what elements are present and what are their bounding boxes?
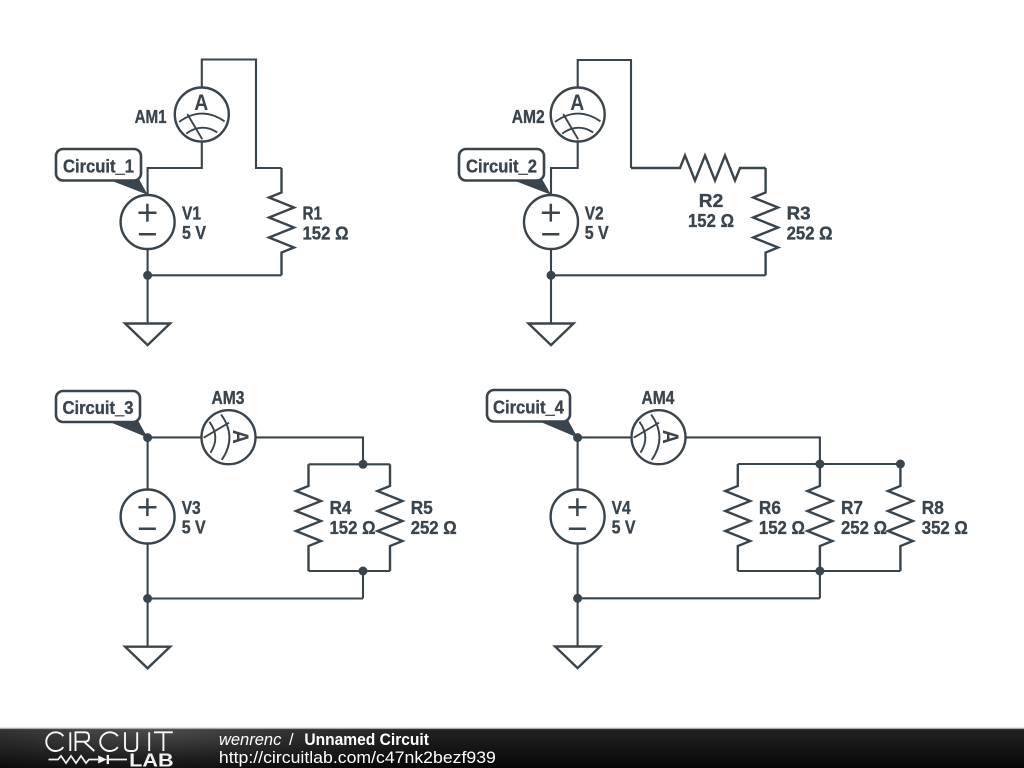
label V4 value <box>612 497 637 538</box>
node C3 parallel top junction (junction dot) <box>359 460 368 469</box>
node C4 source node (junction dot) <box>573 433 582 442</box>
label V3 value <box>182 497 207 538</box>
svg-text:152 Ω: 152 Ω <box>303 223 349 244</box>
resistor R8 <box>888 464 913 571</box>
wire C2 V2 top to AM2 bottom <box>551 141 578 195</box>
svg-text:R1: R1 <box>303 203 323 224</box>
wire C4 AM4 right to parallel top <box>686 437 820 464</box>
footer bar <box>0 728 1024 768</box>
label R5 value <box>411 497 457 538</box>
ammeter AM1 <box>175 88 229 142</box>
wire C3 node to V3 top <box>147 438 149 490</box>
node C3 ground junction (junction dot) <box>143 594 152 603</box>
ground GND2 <box>529 275 574 345</box>
svg-text:AM4: AM4 <box>642 387 676 408</box>
wire C4 bottom rail <box>738 570 901 572</box>
wire C4 V4 bottom to ground node <box>577 544 579 599</box>
wire C3 AM3 right to parallel top <box>256 437 364 464</box>
wire C3 bottom rail <box>309 570 391 572</box>
wire C1 ammeter top to R1 top <box>202 60 282 169</box>
CircuitLab logo: CIRCUIT <box>46 732 173 751</box>
svg-text:http://circuitlab.com/c47nk2be: http://circuitlab.com/c47nk2bezf939 <box>219 748 496 767</box>
wire C4 node to V4 top <box>577 438 579 490</box>
label R2 value <box>688 190 734 231</box>
svg-text:V1: V1 <box>182 203 201 224</box>
label R4 value <box>330 497 376 538</box>
ammeter AM2 <box>551 88 605 142</box>
svg-text:252 Ω: 252 Ω <box>411 517 457 538</box>
svg-text:V3: V3 <box>182 497 201 518</box>
footer title: author / circuit name <box>219 731 430 749</box>
wire C2 bottom return <box>551 274 766 276</box>
label V1 value <box>182 203 207 244</box>
node name flag Circuit_1 <box>56 149 148 195</box>
svg-text:R6: R6 <box>759 497 781 518</box>
wire C4 rail to return <box>819 571 821 598</box>
node name flag Circuit_4 <box>487 390 578 438</box>
wire C3 top rail <box>309 463 391 465</box>
svg-text:Circuit_1: Circuit_1 <box>63 156 134 177</box>
wire C4 bottom return <box>578 597 820 599</box>
voltage source V2 (5 V) <box>524 195 578 249</box>
resistor R5 <box>378 464 403 571</box>
node C3 source node (junction dot) <box>143 433 152 442</box>
wire C3 bottom return <box>148 597 363 599</box>
node name flag Circuit_2 <box>459 149 551 195</box>
node C4 parallel bottom junction (junction dot) <box>815 567 824 576</box>
svg-text:R5: R5 <box>411 497 433 518</box>
wire C4 node to AM4 left <box>578 436 632 438</box>
resistor R1 <box>269 168 294 275</box>
svg-text:5 V: 5 V <box>182 222 207 243</box>
svg-text:5 V: 5 V <box>182 517 207 538</box>
label AM4 <box>642 387 676 408</box>
ground GND4 <box>555 598 600 668</box>
svg-text:R2: R2 <box>699 190 724 211</box>
label V2 value <box>585 203 610 244</box>
label R8 value <box>922 497 968 538</box>
label R7 value <box>841 497 887 538</box>
CircuitLab logo: resistor-diode squiggle <box>49 755 128 764</box>
svg-text:R7: R7 <box>841 497 863 518</box>
resistor R3 <box>753 168 778 275</box>
svg-text:R4: R4 <box>330 497 353 518</box>
svg-text:Circuit_4: Circuit_4 <box>493 397 565 418</box>
wire C3 V3 bottom to ground node <box>147 544 149 599</box>
ground GND1 <box>125 275 170 345</box>
svg-text:V4: V4 <box>612 497 632 518</box>
ammeter AM4 <box>632 410 686 464</box>
label AM1 <box>135 106 167 127</box>
wire C2 ammeter top to R2 left <box>578 60 631 168</box>
svg-text:Circuit_3: Circuit_3 <box>63 397 134 418</box>
wire C2 V2 bottom to ground node <box>550 249 552 275</box>
svg-text:5 V: 5 V <box>585 222 610 243</box>
svg-text:352 Ω: 352 Ω <box>922 517 968 538</box>
node C3 parallel bottom junction (junction dot) <box>359 567 368 576</box>
svg-text:R8: R8 <box>922 497 944 518</box>
svg-text:152 Ω: 152 Ω <box>330 517 376 538</box>
node C2 ground junction (junction dot) <box>547 271 556 280</box>
node name flag Circuit_3 <box>56 391 148 438</box>
ground GND3 <box>125 599 170 669</box>
label R3 value <box>787 203 833 244</box>
footer url <box>219 748 496 767</box>
wire C1 V1 bottom to ground node <box>147 249 149 275</box>
wire C1 bottom return <box>148 274 282 276</box>
svg-text:AM3: AM3 <box>212 387 245 408</box>
voltage source V4 (5 V) <box>551 490 605 544</box>
wire C3 rail to return <box>362 571 364 599</box>
label R1 value <box>303 203 349 244</box>
svg-text:AM1: AM1 <box>135 106 167 127</box>
node C1 ground junction (junction dot) <box>143 271 152 280</box>
wire C1 V1 top to AM1 bottom <box>148 141 202 195</box>
svg-text:152 Ω: 152 Ω <box>759 517 805 538</box>
resistor R4 <box>296 464 321 571</box>
node C4 ground junction (junction dot) <box>573 594 582 603</box>
svg-text:AM2: AM2 <box>512 106 545 127</box>
svg-text:5 V: 5 V <box>612 517 637 538</box>
svg-text:V2: V2 <box>585 203 604 224</box>
resistor R2 <box>631 156 766 181</box>
wire C4 top rail <box>738 463 901 465</box>
svg-text:252 Ω: 252 Ω <box>841 517 887 538</box>
svg-text:LAB: LAB <box>129 750 174 768</box>
label R6 value <box>759 497 805 538</box>
resistor R7 <box>807 464 832 571</box>
voltage source V1 (5 V) <box>121 195 175 249</box>
CircuitLab logo: LAB <box>129 750 174 768</box>
svg-text:252 Ω: 252 Ω <box>787 223 833 244</box>
svg-text:152 Ω: 152 Ω <box>688 210 734 231</box>
label AM2 <box>512 106 545 127</box>
label AM3 <box>212 387 245 408</box>
voltage source V3 (5 V) <box>121 490 175 544</box>
node C4 top-right junction (junction dot) <box>896 460 905 469</box>
svg-text:R3: R3 <box>787 203 811 224</box>
svg-text:Circuit_2: Circuit_2 <box>466 156 537 177</box>
resistor R6 <box>725 464 750 571</box>
wire C3 node to AM3 left <box>148 436 202 438</box>
node C4 parallel top junction (junction dot) <box>815 460 824 469</box>
svg-text:wenrenc / Unnamed Circuit: wenrenc / Unnamed Circuit <box>219 731 430 749</box>
ammeter AM3 <box>202 410 256 464</box>
